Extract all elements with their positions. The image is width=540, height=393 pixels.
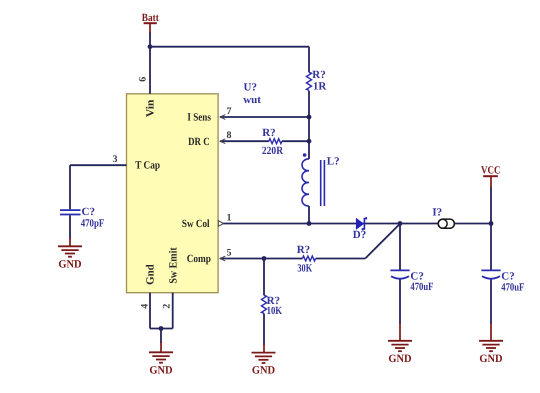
svg-text:T Cap: T Cap bbox=[135, 160, 160, 172]
svg-text:Sw Emit: Sw Emit bbox=[168, 247, 180, 284]
svg-text:5: 5 bbox=[227, 247, 232, 258]
svg-text:1: 1 bbox=[227, 212, 232, 223]
svg-text:Sw Col: Sw Col bbox=[182, 218, 210, 230]
svg-text:R?: R? bbox=[312, 69, 325, 81]
svg-text:R?: R? bbox=[262, 127, 275, 139]
svg-text:10K: 10K bbox=[267, 305, 283, 317]
svg-text:470uF: 470uF bbox=[410, 281, 433, 293]
svg-text:4: 4 bbox=[139, 304, 150, 309]
svg-text:D?: D? bbox=[353, 229, 366, 241]
svg-text:470uF: 470uF bbox=[501, 281, 524, 293]
svg-text:2: 2 bbox=[161, 304, 172, 309]
svg-text:L?: L? bbox=[327, 156, 340, 168]
svg-text:Comp: Comp bbox=[187, 253, 211, 265]
svg-text:Gnd: Gnd bbox=[145, 264, 157, 285]
svg-text:C?: C? bbox=[82, 206, 95, 218]
svg-text:Vin: Vin bbox=[144, 100, 156, 118]
svg-text:GND: GND bbox=[388, 353, 411, 365]
svg-text:30K: 30K bbox=[297, 263, 312, 275]
svg-text:GND: GND bbox=[149, 364, 172, 376]
svg-text:220R: 220R bbox=[262, 145, 284, 157]
svg-text:DR C: DR C bbox=[188, 136, 210, 148]
svg-text:GND: GND bbox=[252, 365, 275, 377]
svg-text:6: 6 bbox=[137, 77, 148, 82]
svg-text:470pF: 470pF bbox=[81, 217, 105, 229]
svg-text:GND: GND bbox=[58, 258, 81, 270]
svg-text:7: 7 bbox=[227, 106, 232, 117]
svg-text:GND: GND bbox=[479, 353, 502, 365]
svg-text:wut: wut bbox=[243, 94, 261, 106]
svg-text:Batt: Batt bbox=[142, 12, 159, 24]
svg-text:8: 8 bbox=[227, 130, 232, 141]
svg-text:VCC: VCC bbox=[481, 165, 501, 177]
svg-text:3: 3 bbox=[113, 154, 118, 165]
svg-text:U?: U? bbox=[244, 81, 257, 93]
svg-text:1R: 1R bbox=[313, 81, 328, 93]
svg-text:I Sens: I Sens bbox=[187, 112, 211, 124]
svg-text:I?: I? bbox=[432, 206, 442, 218]
svg-text:R?: R? bbox=[297, 244, 310, 256]
